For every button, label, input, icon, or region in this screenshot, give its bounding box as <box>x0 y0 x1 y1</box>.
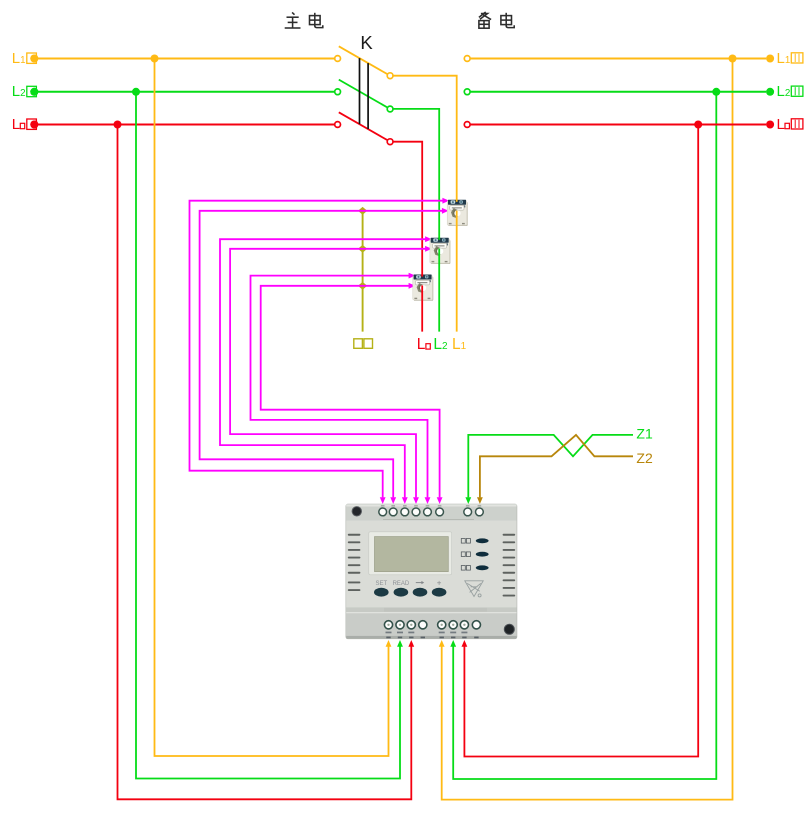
svg-text:L: L <box>777 116 785 133</box>
svg-text:K: K <box>360 32 373 53</box>
svg-text:L: L <box>12 116 20 133</box>
svg-text:L: L <box>417 336 426 353</box>
svg-text:Z2: Z2 <box>636 450 653 466</box>
svg-text:Z1: Z1 <box>636 426 653 442</box>
svg-text:SET: SET <box>375 581 387 587</box>
svg-text:READ: READ <box>393 581 410 587</box>
svg-text:+: + <box>437 578 442 587</box>
